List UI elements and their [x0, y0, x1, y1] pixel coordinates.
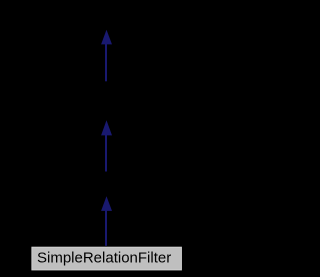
svg-text:SimpleRelationFilter: SimpleRelationFilter	[37, 249, 171, 266]
